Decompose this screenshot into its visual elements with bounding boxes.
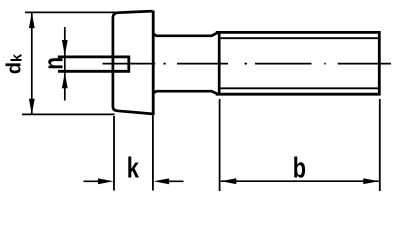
svg-text:b: b [293, 153, 306, 185]
dk bottom extension line [22, 113, 115, 115]
b left extension line [219, 99, 221, 191]
n arrowhead up [62, 73, 68, 89]
slot bottom edge [58, 70, 129, 73]
slot top edge [58, 56, 129, 59]
screw end face [378, 31, 381, 95]
b arrowhead right [363, 178, 379, 184]
thread minor diameter bottom (thin) [221, 87, 379, 89]
n arrowhead down [62, 40, 68, 56]
k right extension line [152, 116, 154, 191]
k arrowhead pointing right [98, 178, 114, 184]
dk top extension line [25, 11, 118, 13]
thread major diameter top [216, 31, 381, 34]
svg-text:k: k [127, 153, 140, 184]
screw head outline [113, 11, 153, 114]
dk dimension line [31, 13, 33, 115]
centre axis line (dash-dot) [103, 63, 392, 65]
thread major diameter bottom [216, 93, 381, 96]
k arrowhead pointing left [154, 178, 170, 184]
head right edge (head-shank boundary) [152, 11, 155, 116]
k dimension line left part [84, 180, 101, 182]
dk arrowhead up [29, 13, 35, 29]
thread minor diameter top (thin) [221, 37, 379, 39]
b right extension line [379, 99, 381, 191]
b arrowhead left [221, 178, 237, 184]
b dimension line [221, 180, 379, 182]
svg-text:n: n [39, 57, 69, 70]
shank bottom edge with thread runout flare [154, 91, 219, 94]
shank top edge with thread runout flare [154, 32, 219, 36]
dk arrowhead down [29, 99, 35, 115]
n dimension line [64, 27, 66, 101]
thread start line [218, 31, 221, 95]
k left extension line [113, 116, 115, 191]
k dimension line right part [167, 180, 184, 182]
slot inner end [127, 56, 130, 73]
